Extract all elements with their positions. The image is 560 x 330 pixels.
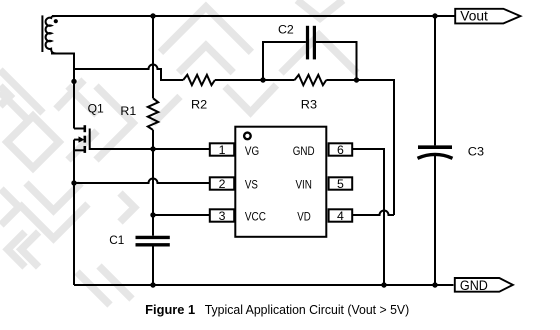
node C3 bottom / GND rail [432,282,437,287]
transistor Q1 source stub [74,149,85,151]
pin 1 indicator circle [244,133,251,140]
svg-text:4: 4 [337,209,344,223]
pin boxes [210,143,352,221]
node on drain column [71,79,76,84]
pin 4 box [329,209,353,221]
node VCC / C1 top [150,212,155,217]
wire: C3 column bottom [434,155,436,285]
svg-text:R3: R3 [301,98,317,112]
node top rail / R1 column [150,13,155,18]
component value labels [88,22,485,247]
wire: pin 4 VD wire with hop over GND line [352,211,394,216]
svg-text:C3: C3 [468,145,484,159]
pin 5 box [329,177,353,189]
capacitor C2 plates [306,26,309,60]
wire: VCC row [153,214,210,216]
inductor polarity dot [54,19,58,23]
capacitor C1 plates [136,236,170,239]
svg-text:VG: VG [245,144,259,158]
svg-text:VIN: VIN [295,177,312,191]
resistor R1 [148,98,158,130]
wire: C2 branch right riser [316,42,357,80]
node top rail / C3 column [432,13,437,18]
node VG / R1 bottom [150,146,155,151]
svg-text:VS: VS [245,177,258,191]
wire: drain branch with hop over R1 column [73,65,183,81]
svg-text:Q1: Q1 [88,101,104,115]
node A (R2/R3/C2 left) [260,77,265,82]
capacitor C3 straight plate [418,145,452,149]
capacitor C3 curved plate [418,154,453,158]
svg-text:R2: R2 [191,98,207,112]
resistor R3 [295,75,327,85]
pin 6 box [329,143,353,155]
transistor Q1 body arrow lead [74,139,79,141]
resistor R2 [183,75,215,85]
node B (R3/C2 right) [354,77,359,82]
pin 2 box [210,177,234,189]
svg-text:6: 6 [337,143,344,157]
op-amp U1 body [235,127,326,237]
pin numbers [219,143,344,223]
wire: pin 6 GND down line [352,149,384,285]
wire: C1 column from VG row down [152,149,154,236]
svg-text:5: 5 [337,177,344,191]
wire: VS row with hop over C1 column [74,179,210,184]
IC pin name labels [245,144,315,224]
wire: C2 branch left riser [263,42,306,80]
transistor Q1 arrow head [79,136,85,142]
GND flag [455,278,513,293]
svg-text:2: 2 [219,177,226,191]
wire: inductor bottom lead to left column [51,54,74,129]
pin 3 box [210,209,234,221]
node VS / source column [71,180,76,185]
transistor Q1 gate bar [89,129,91,151]
svg-text:3: 3 [219,209,226,223]
svg-text:Figure 1: Figure 1 [145,303,195,317]
wire: C1 bottom lead [152,247,154,286]
wire: source column down to bottom rail [73,140,75,285]
svg-text:GND: GND [460,278,488,293]
wire: R2 to node A [215,79,295,81]
wire: C3 column top [434,16,436,145]
wire: VG row (gate to pin 1) [90,148,210,150]
resistor R1 column from top rail [152,16,154,98]
svg-text:Typical Application Circuit (V: Typical Application Circuit (Vout > 5V) [205,303,410,317]
transistor Q1 drain stub [74,128,85,130]
svg-text:GND: GND [293,144,315,158]
wire: bottom rail (GND rail) [74,284,454,286]
wire: R1 bottom to VG row [152,130,154,149]
wire: R3 to corner, down to VD row [326,80,394,215]
Vout flag [455,9,520,24]
svg-text:1: 1 [219,143,226,157]
svg-text:C2: C2 [278,22,294,36]
node C1 bottom / GND rail [150,282,155,287]
svg-text:R1: R1 [120,104,136,118]
transistor Q1 channel dashes [84,125,87,153]
node GND line / GND rail [381,282,386,287]
node: junction dots [54,13,438,287]
wire: top rail (Vout rail) [52,15,455,17]
inductor L1 core bar [41,15,43,52]
inductor L1 winding [46,16,57,54]
svg-text:Vout: Vout [460,9,488,24]
svg-text:VD: VD [297,209,311,223]
watermark pattern [0,0,357,305]
pin 1 box [210,143,234,155]
svg-text:VCC: VCC [245,209,266,223]
svg-text:C1: C1 [109,233,124,247]
